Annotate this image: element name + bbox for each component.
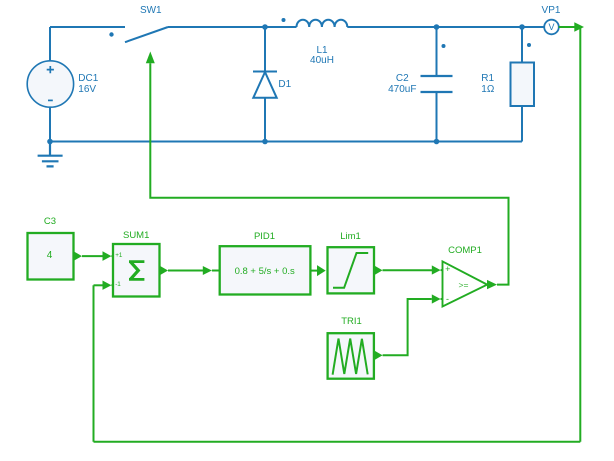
value 470uF	[362, 85, 442, 95]
node: bottom rail / source junction	[47, 139, 53, 145]
summer SUM1	[113, 244, 160, 297]
value 1 ohm	[481, 85, 494, 95]
pin label minus	[408, 295, 488, 304]
dc source DC1	[27, 61, 73, 107]
capacitor C2 wire top	[436, 27, 438, 76]
node: bottom rail / C2 junction	[434, 139, 440, 145]
capacitor C2 wire bottom	[436, 92, 438, 142]
voltmeter V letter	[512, 23, 592, 32]
wire: feedback left side up	[93, 285, 95, 442]
switch control arrowhead	[146, 52, 155, 64]
dc source DC1 plus sign	[47, 66, 54, 73]
resistor R1 polarity dot	[527, 43, 531, 47]
Lim1 output arrow	[374, 265, 383, 275]
dc source DC1 wire top	[49, 27, 51, 61]
node: top rail / C2 junction	[434, 24, 440, 30]
wire: Lim1 to COMP1	[383, 269, 433, 271]
wire: feedback into SUM1	[94, 284, 104, 286]
label C3	[10, 217, 90, 227]
inductor L1	[297, 20, 348, 27]
C3 output arrow	[74, 251, 83, 261]
Lim1 saturation curve	[333, 253, 368, 288]
dc source DC1 wire bottom	[49, 107, 51, 142]
wire: feedback right side down	[579, 27, 581, 442]
wire: VP1 to feedback corner	[559, 26, 581, 28]
COMP1 >= symbol	[424, 281, 504, 290]
value 16V	[78, 85, 96, 95]
resistor R1 wire bottom	[521, 106, 523, 142]
limiter Lim1	[328, 247, 375, 293]
wire: TRI1 to COMP1 minus input	[383, 299, 432, 355]
wire: SUM1 to PID1	[168, 270, 203, 272]
label L1	[282, 46, 362, 56]
wire: feedback bottom	[94, 441, 581, 443]
wire: inductor to VP1	[347, 26, 544, 28]
COMP1 plus input arrow	[432, 265, 441, 274]
TRI1 triangle wave	[333, 339, 368, 375]
node: top rail / diode junction	[262, 24, 268, 30]
pin label +1	[115, 253, 122, 259]
TRI1 output arrow	[374, 350, 383, 360]
switch SW1 arm	[125, 27, 168, 42]
wire: COMP1 output to switch control	[150, 63, 508, 284]
label SW1	[111, 6, 191, 16]
label DC1	[78, 74, 98, 84]
SUM1 output arrow	[160, 266, 169, 276]
wire: top rail source to switch	[50, 26, 125, 28]
node: bottom rail / diode junction	[262, 139, 268, 145]
triangle source TRI1	[328, 333, 374, 379]
diode D1 wire bottom	[264, 98, 266, 142]
SUM1 sigma symbol	[129, 262, 144, 280]
SUM1 +1 input arrow	[103, 251, 112, 261]
value 4	[10, 251, 90, 261]
voltmeter VP1	[544, 20, 559, 35]
capacitor C2 plates	[421, 76, 453, 92]
comparator COMP1	[443, 261, 488, 306]
Lim1 input arrow	[317, 265, 326, 276]
label TRI1	[312, 317, 392, 327]
diode D1	[253, 72, 276, 98]
dc source DC1 minus sign	[48, 99, 53, 101]
pin label -1	[115, 282, 121, 288]
constant block C3	[28, 233, 74, 280]
label R1	[481, 74, 494, 84]
COMP1 output arrow	[487, 280, 497, 289]
wire: PID1 to Lim1	[310, 270, 317, 272]
capacitor C2 polarity dot	[442, 44, 446, 48]
PID block PID1	[220, 246, 311, 294]
SUM1 -1 input arrow	[103, 281, 112, 290]
ground	[38, 142, 63, 167]
PID1 input arrow	[203, 266, 212, 275]
pin label plus	[408, 265, 488, 274]
resistor R1 wire top	[521, 27, 523, 63]
resistor R1	[511, 63, 535, 107]
wire: R1 node to voltmeter	[522, 26, 544, 28]
switch SW1 control dot	[109, 32, 113, 36]
value 40uH	[282, 56, 362, 66]
wire: switch to inductor	[168, 26, 297, 28]
label SUM1	[96, 231, 176, 241]
diode D1 cathode bar	[253, 71, 277, 73]
label COMP1	[425, 246, 505, 256]
label VP1	[511, 6, 591, 16]
COMP1 minus input arrow	[432, 294, 441, 303]
wire: bottom rail	[50, 141, 522, 143]
label PID1	[225, 232, 305, 242]
label Lim1	[311, 232, 391, 242]
value 0.8 + 5/s + 0.s	[225, 267, 305, 277]
label D1	[278, 80, 291, 90]
feedback arrowhead right	[574, 22, 584, 31]
node: top rail / R1 junction	[519, 24, 525, 30]
wire: C3 to SUM1	[82, 255, 103, 257]
inductor L1 polarity dot	[282, 18, 286, 22]
label C2	[362, 74, 442, 84]
diode D1 wire top	[264, 27, 266, 72]
